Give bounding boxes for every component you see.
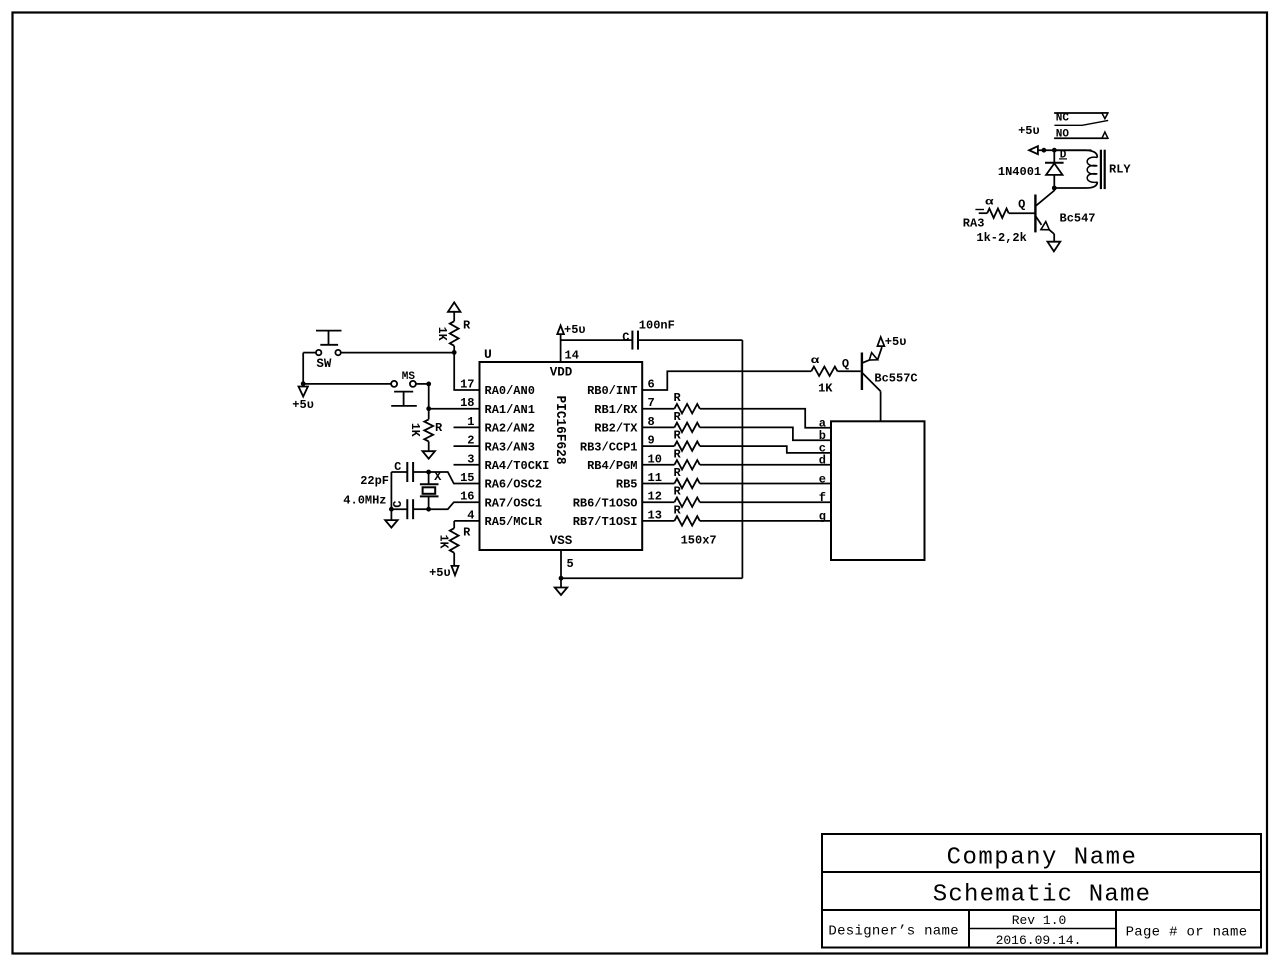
svg-text:RB6/T1OSO: RB6/T1OSO (573, 496, 638, 510)
wire stub pin 1 (454, 426, 480, 428)
display DS1 7-segment box (831, 421, 925, 560)
resistor R9 150 (array) (674, 498, 699, 507)
wire stub pin 2 (454, 445, 480, 447)
power +5v arrow at VDD (557, 326, 564, 335)
wire R7 to display (700, 464, 831, 466)
wire crystal bottom to pin 16 (429, 502, 480, 509)
wire MS right to pin18 node (416, 383, 429, 385)
capacitor C2 22pF bottom (391, 508, 407, 510)
wire SW left down to +5v node (303, 352, 316, 354)
power +5v arrow down at SW (302, 384, 304, 387)
wire R5 to display (stepped) (700, 427, 831, 440)
wire pin 6 to Q1 base (642, 371, 811, 390)
resistor R10 150 (array) (674, 516, 699, 525)
svg-text:Schematic Name: Schematic Name (933, 882, 1151, 909)
svg-text:4.0MHz: 4.0MHz (343, 494, 386, 508)
wire pin 13 stub (642, 520, 674, 522)
svg-text:RA0/AN0: RA0/AN0 (485, 384, 535, 398)
ground at VSS (560, 578, 562, 587)
Q2 emitter arrow (NPN) (1041, 222, 1049, 230)
svg-text:D: D (1060, 150, 1067, 162)
relay contact NO (1054, 137, 1108, 139)
ground at R2 (422, 451, 435, 459)
wire SW right to R1 node (341, 352, 454, 354)
relay contact NC (1054, 112, 1108, 114)
svg-text:1K: 1K (436, 535, 449, 549)
svg-text:1K: 1K (818, 382, 833, 396)
wire stub pin 3 (454, 464, 480, 466)
svg-text:C: C (394, 460, 401, 474)
transistor Q2 Bc547 NPN (1034, 195, 1036, 233)
svg-text:C: C (391, 501, 405, 508)
capacitor C1 22pF top (391, 471, 407, 473)
wire vertical bus down right side (741, 340, 743, 578)
wire +5v node to MS (303, 383, 391, 385)
ground at Q2 emitter (1048, 242, 1061, 252)
wire pin 10 stub (642, 464, 674, 466)
wire R6 to display (stepped) (700, 446, 831, 453)
svg-text:RB3/CCP1: RB3/CCP1 (580, 440, 638, 454)
svg-text:RA6/OSC2: RA6/OSC2 (485, 478, 543, 492)
svg-text:Bc547: Bc547 (1060, 212, 1096, 226)
wire R8 to display (700, 483, 831, 485)
svg-text:R: R (463, 319, 471, 333)
wire pin 11 stub (642, 483, 674, 485)
resistor R2 1K vertical (428, 409, 430, 420)
svg-text:Company Name: Company Name (947, 845, 1138, 872)
wire VSS pin 5 (560, 550, 562, 578)
svg-text:α: α (985, 196, 994, 208)
svg-text:RB0/INT: RB0/INT (587, 384, 637, 398)
switch MS pushbutton (391, 381, 397, 387)
svg-text:R: R (674, 466, 682, 480)
svg-text:RB1/RX: RB1/RX (594, 403, 638, 417)
power +5v at R1 (448, 302, 461, 311)
svg-text:14: 14 (565, 349, 579, 363)
relay RLY coil (1054, 150, 1097, 157)
svg-text:22pF: 22pF (360, 474, 389, 488)
junction diode bottom (1052, 186, 1057, 191)
svg-text:Q: Q (1018, 197, 1025, 211)
wire pin 8 stub (642, 426, 674, 428)
power +5v arrow below R3 (452, 566, 459, 575)
svg-text:1K: 1K (435, 327, 448, 341)
svg-text:SW: SW (316, 357, 332, 371)
junction R1 / SW wire (452, 350, 457, 355)
svg-text:Designer’s name: Designer’s name (828, 924, 959, 940)
svg-text:VDD: VDD (550, 366, 573, 380)
svg-text:2016.09.14.: 2016.09.14. (996, 933, 1082, 948)
svg-text:NC: NC (1056, 112, 1070, 124)
resistor R12 1k-2,2k at Q2 base (1009, 212, 1036, 214)
svg-text:Rev 1.0: Rev 1.0 (1012, 913, 1067, 928)
relay common arm (1054, 120, 1108, 125)
resistor R1 1K vertical (453, 312, 455, 321)
wire pin 12 stub (642, 501, 674, 503)
wire +5v feed to relay coil (1029, 146, 1038, 154)
svg-text:1k-2,2k: 1k-2,2k (976, 231, 1026, 245)
svg-text:RB4/PGM: RB4/PGM (587, 459, 637, 473)
wire relay to Q2 collector (1035, 188, 1054, 206)
wire pin 9 stub (642, 445, 674, 447)
junction crystal top node (426, 470, 431, 475)
svg-text:R: R (674, 410, 682, 424)
wire VSS node to bus (561, 577, 742, 579)
svg-text:RA2/AN2: RA2/AN2 (485, 422, 535, 436)
resistor R6 150 (array) (674, 441, 699, 450)
svg-text:RLY: RLY (1109, 163, 1131, 177)
resistor R7 150 (array) (674, 460, 699, 469)
ground at crystal caps (390, 509, 392, 520)
svg-text:1N4001: 1N4001 (998, 165, 1041, 179)
svg-text:RA7/OSC1: RA7/OSC1 (485, 496, 543, 510)
transistor Q1 Bc557C PNP (861, 353, 863, 391)
svg-text:R: R (674, 391, 682, 405)
svg-text:α: α (811, 355, 820, 367)
svg-text:NO: NO (1056, 129, 1070, 141)
svg-text:Q: Q (842, 357, 849, 371)
wire VDD pin 14 (560, 334, 562, 362)
svg-text:MS: MS (402, 371, 416, 383)
svg-text:f: f (819, 491, 826, 505)
junction left ground node (389, 507, 394, 512)
svg-text:g: g (819, 510, 826, 524)
junction coil top a (1042, 148, 1047, 153)
wire Q1 collector to display (880, 391, 882, 421)
svg-text:Page # or name: Page # or name (1126, 924, 1248, 940)
junction VSS node (559, 576, 564, 581)
diode D1 1N4001 (1053, 150, 1055, 163)
svg-text:100nF: 100nF (639, 319, 675, 333)
junction +5v feed node (301, 381, 306, 386)
relay core bars (1100, 150, 1102, 189)
wire pin 7 stub (642, 408, 674, 410)
svg-text:PIC16F628: PIC16F628 (552, 396, 567, 465)
svg-text:Bc557C: Bc557C (874, 371, 917, 385)
svg-text:RA1/AN1: RA1/AN1 (485, 403, 535, 417)
svg-text:RB5: RB5 (616, 478, 638, 492)
svg-text:VSS: VSS (550, 534, 573, 548)
resistor R5 150 (array) (674, 423, 699, 432)
svg-text:RA4/T0CKI: RA4/T0CKI (485, 459, 550, 473)
svg-text:5: 5 (567, 557, 574, 571)
wire R4 to display (stepped) (700, 409, 831, 428)
svg-text:R: R (463, 526, 471, 540)
switch SW pushbutton (316, 350, 321, 355)
wire to pin 18 (429, 408, 480, 410)
resistor R11 1K at Q1 base (811, 367, 837, 376)
svg-text:+5υ: +5υ (564, 323, 586, 337)
wire crystal top to pin 15 (429, 472, 480, 484)
wire C3 right to vertical bus (639, 339, 743, 341)
wire R10 to display (700, 520, 831, 522)
wire R1 node down to pin 17 (453, 352, 455, 390)
svg-text:+5υ: +5υ (885, 335, 907, 349)
svg-text:RA3/AN3: RA3/AN3 (485, 440, 535, 454)
power +5v at Q1 emitter (877, 337, 884, 346)
svg-text:U: U (484, 347, 492, 362)
svg-text:1K: 1K (408, 423, 421, 437)
svg-text:R: R (435, 421, 443, 435)
capacitor C3 100nF (631, 331, 633, 350)
junction MS corner (426, 382, 431, 387)
crystal X1 4.0MHz (428, 472, 430, 484)
svg-text:+5υ: +5υ (292, 398, 314, 412)
svg-text:RA3: RA3 (963, 217, 985, 231)
svg-text:R: R (674, 447, 682, 461)
svg-text:RB2/TX: RB2/TX (594, 422, 638, 436)
svg-text:e: e (819, 472, 826, 486)
resistor R3 1K on MCLR (453, 521, 455, 528)
title block (822, 834, 1261, 948)
resistor R4 150 (array) (674, 404, 699, 413)
svg-text:R: R (674, 485, 682, 499)
op IC U1 PIC16F628 body (480, 362, 643, 550)
svg-text:C: C (622, 331, 629, 345)
svg-text:d: d (819, 454, 826, 468)
svg-text:RA5/MCLR: RA5/MCLR (485, 515, 543, 529)
net label RA3 (975, 209, 984, 211)
svg-text:R: R (674, 503, 682, 517)
wire left cap branch (390, 472, 392, 509)
resistor R8 150 (array) (674, 479, 699, 488)
svg-text:+5υ: +5υ (1018, 124, 1040, 138)
svg-text:RB7/T1OSI: RB7/T1OSI (573, 515, 638, 529)
svg-text:150x7: 150x7 (681, 534, 717, 548)
wire R9 to display (700, 501, 831, 503)
svg-text:R: R (674, 429, 682, 443)
junction crystal bottom node (426, 507, 431, 512)
wire pin 4 stub (454, 520, 479, 522)
junction coil top b (1052, 148, 1057, 153)
wire +5v to C3 (561, 339, 632, 341)
Q1 emitter arrow (PNP) (869, 353, 877, 360)
junction pin18 node (426, 406, 431, 411)
svg-text:+5υ: +5υ (429, 566, 451, 580)
